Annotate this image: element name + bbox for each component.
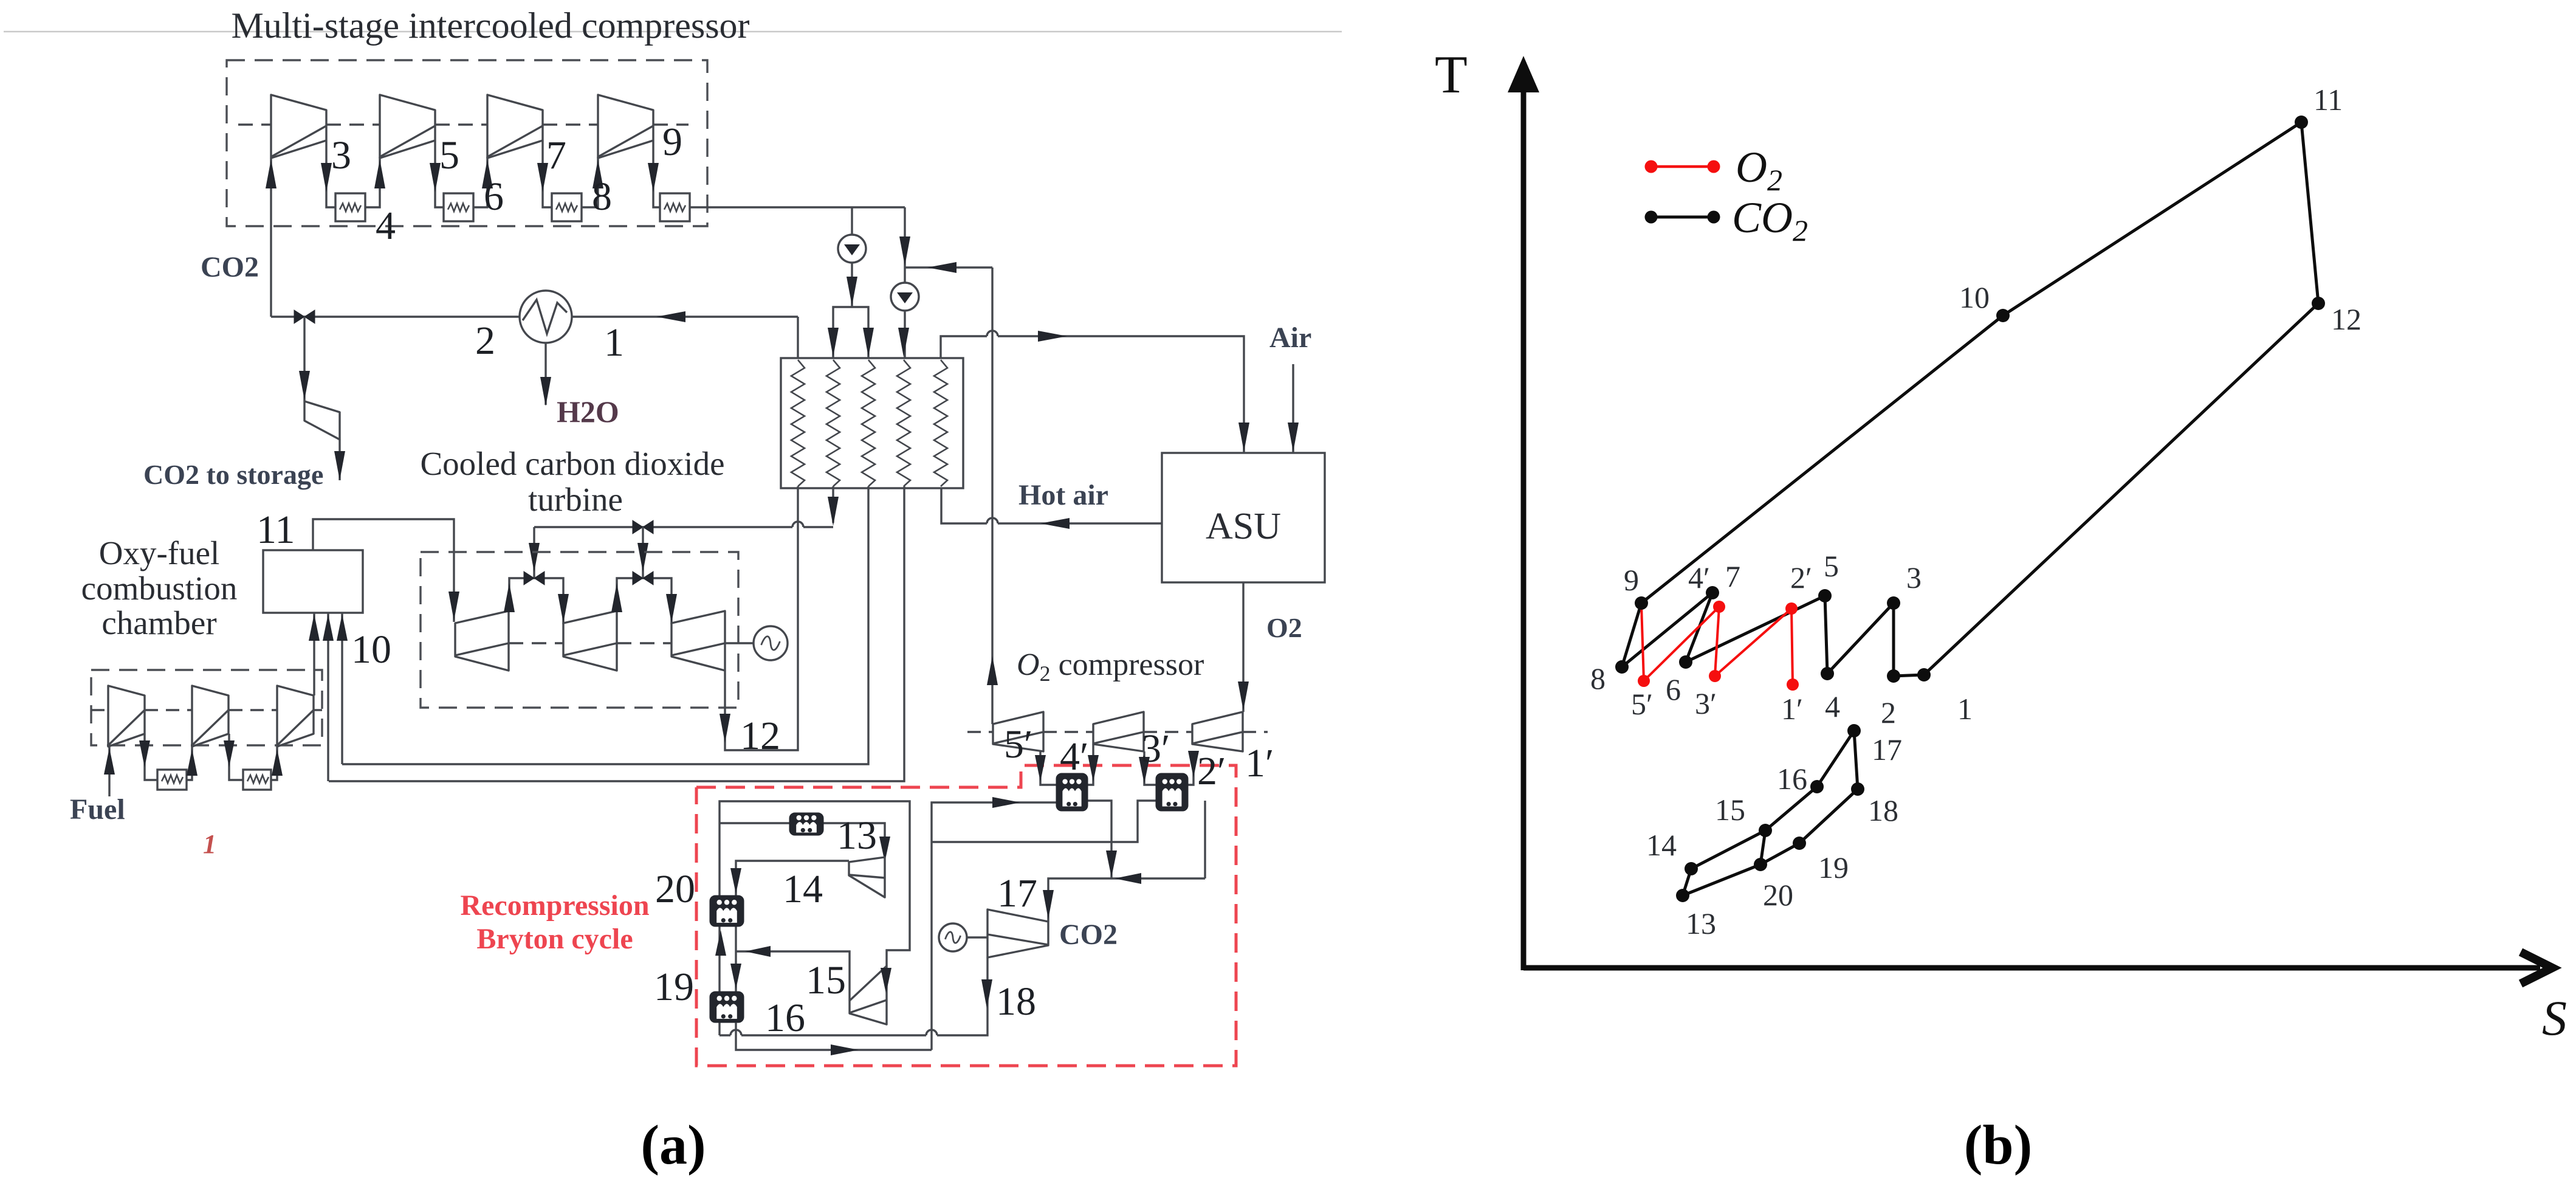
wire: mid stage discharge to cooler A — [1088, 744, 1093, 785]
wire: fuel stage2-3 — [229, 734, 243, 780]
arrow into V2 — [529, 543, 540, 572]
svg-text:14: 14 — [783, 867, 823, 911]
wire: cooler B to mid stage — [1144, 751, 1156, 785]
wire: coil 2 discharge header to turbine valves — [534, 526, 792, 528]
arrow P1 discharge — [847, 277, 857, 306]
fuel compressor 3 — [277, 686, 314, 747]
recuperator coil at x=1313 — [791, 360, 805, 486]
fuel intercooler 1 — [157, 770, 187, 790]
O2 stage 5-prime — [993, 712, 1043, 751]
wire: fuel stage1-2 — [145, 734, 157, 780]
arrow into V3 — [637, 543, 648, 572]
svg-text:turbine: turbine — [528, 481, 623, 518]
arrow to cooler A — [992, 797, 1020, 808]
svg-text:Recompression: Recompression — [460, 889, 649, 922]
wire: hot air from ASU to recuperator — [998, 522, 1162, 524]
recuperator coil at x=1429 — [862, 360, 875, 486]
wire: cooler B left drain — [1111, 801, 1156, 842]
arrow recomp line — [831, 1044, 859, 1055]
dashed box: multi-stage intercooled compressor — [227, 60, 707, 226]
comp 15 — [850, 966, 887, 1024]
svg-text:Air: Air — [1269, 322, 1311, 354]
arrow: O2 merge — [927, 262, 957, 273]
turbine T3 — [671, 611, 725, 671]
svg-text:18: 18 — [996, 979, 1036, 1024]
intercooler 1 of CO2 train — [335, 193, 365, 221]
arrow into comp 17 — [1043, 890, 1054, 919]
O2 path (b) — [1791, 609, 1793, 685]
comp 17 (recompressor) — [987, 909, 1048, 957]
CO2 state dots — [1917, 668, 1931, 681]
svg-text:3′: 3′ — [1695, 686, 1717, 720]
arrow: flow to cooler (state 1) — [656, 311, 685, 322]
generator line — [725, 642, 754, 644]
arrow: into stage 4 — [592, 159, 603, 188]
arrow: O2 into stage — [1238, 681, 1249, 711]
ASU unit — [1162, 453, 1325, 582]
svg-text:15: 15 — [806, 958, 846, 1002]
svg-text:1: 1 — [203, 829, 216, 859]
generator G — [754, 626, 788, 660]
turbine T2 — [563, 611, 617, 671]
svg-text:20: 20 — [655, 867, 695, 911]
arrow: H2O out — [540, 377, 551, 406]
svg-text:Cooled carbon dioxide: Cooled carbon dioxide — [421, 445, 725, 482]
arrow comp15 out — [745, 946, 771, 957]
svg-text:Multi-stage intercooled compre: Multi-stage intercooled compressor — [231, 5, 749, 46]
wire: turbine exhaust stream 12 — [725, 486, 798, 750]
wire: branch to valve V3 — [642, 527, 644, 578]
wire: stream 18 return — [937, 957, 987, 1035]
O2 state dots — [1787, 678, 1799, 691]
wire: Brayton outer loop left/top/right — [720, 801, 910, 1035]
arrow: stage2 to cooler — [430, 163, 441, 192]
compressor stage 4 of CO2 train — [598, 95, 653, 158]
wire: fuel gas feed riser — [313, 613, 315, 695]
valve V2 — [524, 571, 544, 585]
wire: stage 3 discharge to intercooler — [543, 140, 552, 207]
valve on turbine header — [633, 520, 653, 534]
arrow into coil 3 — [863, 328, 874, 357]
arrow O2 riser — [987, 656, 998, 685]
arrow: stage1 to cooler — [321, 163, 332, 192]
legend O2 — [1651, 165, 1714, 168]
arrows O2 intercooling — [1035, 755, 1046, 782]
svg-text:7: 7 — [546, 133, 566, 178]
svg-text:9: 9 — [662, 120, 682, 164]
wire: heated stream from coil 3 to chamber — [342, 486, 868, 764]
wire: branch to junction — [932, 841, 1111, 843]
svg-text:5: 5 — [439, 133, 459, 178]
wire: cooler B right drain — [1204, 801, 1206, 878]
valve V3 — [633, 571, 653, 585]
svg-text:7: 7 — [1725, 559, 1740, 593]
cooler B (2-prime, dark) — [1156, 773, 1188, 811]
wire: cooler20 to junction — [735, 926, 737, 992]
motor M — [967, 936, 987, 938]
arrow: into stage 2 — [374, 159, 385, 188]
arrow into comp 14 — [879, 837, 890, 862]
svg-text:1′: 1′ — [1245, 741, 1274, 785]
arrow into coil 2 — [828, 328, 839, 357]
wire: stage 2 discharge to intercooler — [435, 140, 444, 207]
wire: coil 2 bottom leg — [832, 486, 834, 523]
svg-text:3: 3 — [1906, 561, 1922, 595]
O2 train shaft dashes — [967, 731, 993, 733]
pump P2 — [891, 283, 919, 311]
svg-text:16: 16 — [1777, 762, 1807, 796]
wire: stage 1-prime discharge to cooler B — [1188, 751, 1194, 785]
svg-text:combustion: combustion — [81, 570, 238, 607]
wire: intercooler 8 outlet header to pumps — [690, 206, 905, 208]
wire: stream 11 chamber to turbine 1 — [313, 519, 454, 622]
svg-text:CO2: CO2 — [1059, 919, 1118, 951]
CO2 cycle path (b) — [1894, 675, 1924, 676]
svg-text:Fuel: Fuel — [70, 793, 125, 826]
T-S diagram x-axis — [1523, 965, 2540, 971]
svg-text:15: 15 — [1715, 793, 1745, 827]
legend CO2 — [1651, 216, 1714, 219]
intercooler 4 of CO2 train — [660, 193, 690, 221]
wire: T1 outlet to T2 inlet — [509, 578, 563, 624]
arrow: CO2 into stage 1 — [266, 159, 276, 188]
svg-text:18: 18 — [1868, 793, 1898, 827]
compressor stage 3 of CO2 train — [487, 95, 543, 158]
svg-text:10: 10 — [351, 627, 391, 672]
arrow into cooler 20 — [730, 868, 741, 894]
svg-text:2: 2 — [1881, 695, 1896, 730]
svg-text:13: 13 — [837, 813, 877, 858]
wire: heated stream from coil 4 to chamber — [329, 486, 904, 781]
svg-text:4: 4 — [376, 204, 396, 248]
wire: fresh air feed — [1292, 364, 1294, 453]
svg-text:ASU: ASU — [1206, 506, 1281, 547]
wire: P1 to manifold — [851, 263, 853, 307]
svg-text:17: 17 — [997, 871, 1037, 916]
wire: riser to O2-cooler heat recovery — [932, 802, 1056, 1050]
svg-text:20: 20 — [1763, 878, 1793, 912]
fuel compressor 1 — [108, 686, 145, 747]
T-S diagram y-axis — [1521, 85, 1527, 970]
svg-text:6: 6 — [484, 174, 504, 219]
wire: T2 outlet to T3 inlet — [617, 578, 671, 624]
svg-text:Bryton cycle: Bryton cycle — [476, 923, 633, 955]
cooler 19 (dark) — [710, 992, 744, 1023]
svg-text:CO2: CO2 — [201, 251, 259, 283]
cooler 20 (dark) — [710, 895, 744, 926]
recuperator coil at x=1371 — [826, 360, 840, 486]
arrow return left — [1115, 873, 1141, 884]
svg-text:3: 3 — [331, 133, 351, 178]
arrow: CO2 to storage — [334, 451, 345, 480]
wire: stage 1 discharge to intercooler — [326, 140, 335, 207]
wire: hot return to comp 17 — [1048, 878, 1205, 922]
turbine shaft dashes — [509, 642, 563, 644]
fuel compressor 2 — [192, 686, 228, 747]
svg-text:8: 8 — [1590, 661, 1606, 695]
svg-text:8: 8 — [592, 174, 612, 219]
intercooler 2 of CO2 train — [444, 193, 473, 221]
arrow into mixer — [899, 236, 910, 266]
svg-text:6: 6 — [1666, 672, 1681, 706]
turbine T1 — [455, 611, 509, 671]
wire: intercooler 3 outlet to stage 4 — [582, 157, 598, 207]
svg-text:Oxy-fuel: Oxy-fuel — [99, 534, 220, 571]
svg-text:11: 11 — [2313, 83, 2343, 117]
wire: cooler 13 header — [720, 823, 885, 857]
svg-text:9: 9 — [1624, 563, 1639, 597]
oxy-fuel combustion chamber box — [263, 550, 363, 613]
svg-text:19: 19 — [1818, 850, 1849, 885]
arrow: stage3 to cooler — [537, 163, 548, 192]
wire: comp15 out to cooler 19 — [736, 951, 850, 1001]
arrow into letdown expander — [299, 371, 310, 400]
svg-text:S: S — [2542, 990, 2567, 1046]
wire: O2 merge line — [905, 266, 992, 268]
svg-text:4′: 4′ — [1688, 561, 1710, 595]
arrow stream 18 — [981, 979, 992, 1009]
wire: H2O drain — [544, 343, 546, 405]
arrows turbine train — [448, 592, 459, 621]
svg-text:16: 16 — [765, 996, 805, 1040]
arrow: hot air — [1040, 518, 1070, 529]
dashed box: fuel compressor train — [91, 670, 322, 745]
svg-text:CO2 to storage: CO2 to storage — [143, 459, 323, 490]
wire: manifold to coils 2 and 3 — [833, 307, 868, 358]
compressor stage 2 of CO2 train — [380, 95, 435, 158]
svg-text:1′: 1′ — [1781, 692, 1803, 726]
svg-text:chamber: chamber — [101, 604, 216, 641]
wire: comp14 out to cooler 20 — [736, 861, 849, 895]
cooler A (4-prime, dark) — [1056, 773, 1088, 811]
intercooler 3 of CO2 train — [552, 193, 582, 221]
arrow into coil 4 — [898, 328, 909, 357]
svg-text:14: 14 — [1646, 828, 1677, 862]
svg-text:2′: 2′ — [1197, 749, 1226, 793]
wire: intercooler 1 outlet to stage 2 — [365, 157, 380, 207]
arrow: fresh air into ASU — [1288, 423, 1299, 452]
svg-text:O2: O2 — [1266, 612, 1302, 643]
O2 stage 3-prime — [1093, 712, 1144, 751]
arrow up outer line — [715, 930, 726, 956]
arrow: air into ASU top — [1238, 423, 1249, 452]
comp 14 — [849, 857, 885, 897]
fuel arrows — [104, 748, 115, 775]
wire: junction down — [1110, 842, 1112, 878]
cooler 13 (dark) — [789, 813, 823, 835]
arrow: air to ASU — [1038, 331, 1067, 342]
wire: oxidant feed riser B (stream 10) — [341, 613, 343, 764]
recuperator coil at x=1487 — [897, 360, 910, 486]
wire: oxidant feed riser A — [327, 613, 329, 781]
svg-text:Hot air: Hot air — [1018, 479, 1108, 511]
wire: P2 to coil 4 — [904, 311, 905, 358]
arrow into cooler 19 — [730, 964, 741, 989]
svg-text:11: 11 — [256, 508, 295, 552]
wire: O2 riser from stage 5-prime — [991, 267, 993, 724]
recuperator (multi-stream heat exchanger) — [781, 358, 963, 488]
arrow exhaust 12 — [720, 714, 730, 743]
wire: branch to pump P1 — [851, 207, 853, 235]
svg-text:T: T — [1435, 46, 1468, 105]
svg-text:12: 12 — [740, 714, 780, 758]
wire: branch to storage expander — [303, 317, 305, 401]
shaft line of CO2 compressor train — [238, 123, 271, 125]
arrows into chamber — [309, 614, 320, 641]
wire: branch to valve V2 — [533, 527, 535, 578]
arrow into comp 15 — [881, 968, 891, 993]
wire: main CO2 header (states 2-1) — [271, 316, 798, 317]
wire: intercooler 2 outlet to stage 3 — [474, 157, 487, 207]
dashed box: cooled CO2 turbine — [421, 552, 738, 708]
svg-text:4: 4 — [1825, 689, 1840, 723]
arrow junction down — [1106, 850, 1117, 877]
svg-text:(a): (a) — [641, 1114, 706, 1176]
wire: expander outlet to storage — [338, 440, 340, 480]
svg-text:5′: 5′ — [1004, 722, 1032, 767]
wire: stage 4 discharge to intercooler 8 — [653, 140, 660, 207]
pump P1 — [838, 235, 866, 263]
arrow: stage4 to cooler — [648, 163, 659, 192]
valve: CO2 letdown — [294, 310, 315, 323]
recuperator coil at x=1548 — [934, 360, 947, 486]
wire: preheated air to ASU — [941, 336, 987, 358]
svg-text:3′: 3′ — [1141, 726, 1170, 771]
svg-text:1: 1 — [604, 320, 624, 365]
svg-text:2: 2 — [475, 319, 495, 363]
wire: riser into recuperator coil 1 top — [797, 317, 799, 358]
svg-text:1: 1 — [1957, 692, 1973, 726]
svg-text:17: 17 — [1872, 733, 1902, 767]
arrow: into stage 3 — [482, 159, 493, 188]
fuel shaft dashes — [91, 709, 108, 711]
svg-text:2′: 2′ — [1790, 561, 1812, 595]
O2 stage 1-prime — [1192, 712, 1243, 751]
wire: fuel inlet — [108, 747, 110, 796]
svg-text:19: 19 — [654, 965, 694, 1009]
svg-text:(b): (b) — [1964, 1114, 2032, 1176]
wire: O2 from ASU to compressor 1-prime — [1242, 582, 1244, 712]
water cooler (heat exchanger circle) — [520, 291, 572, 343]
svg-text:13: 13 — [1686, 906, 1716, 940]
wire: cooler A drain — [1088, 801, 1111, 842]
red dashed boundary: Recompression Brayton cycle — [696, 765, 1236, 1066]
svg-text:10: 10 — [1959, 280, 1990, 314]
wire: cooler19 bottom to recomp riser — [736, 1023, 932, 1050]
svg-text:4′: 4′ — [1060, 734, 1088, 779]
compressor stage 1 of CO2 train — [271, 95, 326, 158]
wire: CO2 recycle line from compressor 1 down to main header — [270, 158, 272, 317]
letdown expander (CO2 to storage) — [304, 401, 340, 440]
svg-text:5: 5 — [1824, 549, 1839, 583]
wire: cooler A to stage 5-prime — [1040, 751, 1056, 785]
svg-text:5′: 5′ — [1631, 687, 1653, 721]
fuel intercooler 2 — [243, 770, 271, 790]
svg-text:12: 12 — [2331, 302, 2361, 336]
wire: header corner down to mixing point — [904, 207, 905, 283]
svg-text:H2O: H2O — [557, 395, 619, 429]
arrow: coil2 into header — [828, 497, 839, 526]
